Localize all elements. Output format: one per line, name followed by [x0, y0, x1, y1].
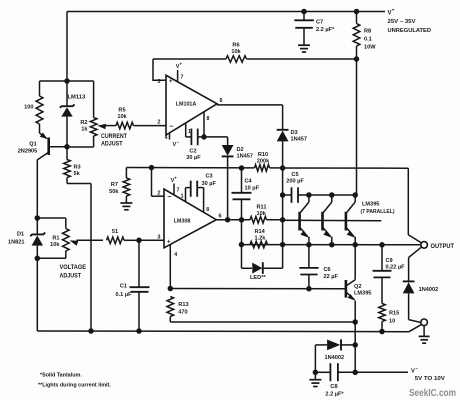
wire C4 top lead: [241, 168, 243, 193]
node R15 bottom: [379, 329, 385, 335]
svg-text:SeekIC.com: SeekIC.com: [409, 388, 456, 399]
pin4 V- stub LM101A: [169, 133, 171, 140]
wire pin2 drop: [151, 168, 153, 197]
wire R1 bottom: [65, 251, 67, 258]
ground below output post: [423, 326, 425, 336]
wire R2 bottom to base node: [93, 136, 95, 147]
svg-text:LM308: LM308: [174, 218, 191, 224]
svg-text:1N821: 1N821: [8, 239, 24, 245]
wire LED left leg: [241, 245, 243, 269]
op-amp U1 LM101A body: [166, 75, 217, 135]
node C8 right V-: [352, 370, 358, 376]
wire junction to output line: [283, 167, 409, 169]
svg-text:D1: D1: [17, 231, 24, 237]
wire base node to R3: [66, 147, 68, 160]
wire base drive rail: [170, 288, 346, 290]
wire D1 top lead: [36, 218, 38, 234]
wire emitter rail: [242, 244, 421, 246]
capacitor C7 2.2uF: [303, 12, 305, 21]
svg-text:R6: R6: [232, 43, 239, 49]
svg-text:200 µF: 200 µF: [286, 179, 304, 185]
svg-text:R5: R5: [118, 108, 125, 114]
wire C1 to bottom rail: [138, 292, 140, 331]
node collector 1: [306, 192, 312, 198]
transistor LM395 unit 2: [321, 212, 324, 231]
capacitor C2 30uF: [186, 136, 192, 138]
svg-text:2.2 µF*: 2.2 µF*: [325, 391, 344, 397]
svg-text:8: 8: [206, 207, 209, 213]
resistor R5 10k: [116, 122, 134, 129]
wire R8 to R6 node: [356, 46, 358, 59]
wire D2 to LM308 output node: [227, 156, 229, 219]
resistor R10 200k: [255, 165, 270, 172]
wire diode left to C8 node: [314, 345, 316, 372]
svg-text:7: 7: [177, 188, 180, 194]
svg-text:5V TO 10V: 5V TO 10V: [415, 376, 445, 382]
capacitor C4 10pF: [232, 192, 252, 194]
ground below C7: [298, 44, 310, 46]
svg-text:D3: D3: [291, 130, 298, 136]
transistor Q1 emitter arrow: [40, 133, 48, 140]
node Q1 base junction: [64, 144, 70, 150]
svg-text:VOLTAGE: VOLTAGE: [60, 264, 87, 271]
svg-text:LM395: LM395: [354, 291, 371, 297]
svg-text:C8: C8: [330, 384, 337, 390]
svg-text:C2: C2: [189, 149, 196, 155]
svg-text:Q1: Q1: [29, 141, 36, 147]
pin7 V+ stub LM101A: [177, 70, 179, 82]
svg-text:3: 3: [157, 234, 160, 240]
transistor Q1 base bar: [47, 138, 50, 156]
op-amp U2 LM308 body: [164, 189, 216, 248]
svg-text:6: 6: [219, 213, 222, 219]
svg-text:−: −: [167, 194, 171, 201]
zener diode LM113 body: [61, 107, 72, 116]
wire R1 branch top: [37, 217, 66, 219]
svg-text:0.1: 0.1: [364, 36, 372, 42]
wire C9 to R15: [381, 277, 383, 303]
zener diode D1 body: [32, 235, 43, 245]
svg-text:OUTPUT: OUTPUT: [431, 243, 455, 250]
transistor Q1 2N2905 emitter lead: [40, 133, 47, 138]
capacitor C1 0.1uF: [130, 286, 150, 288]
svg-text:50k: 50k: [109, 189, 119, 195]
node C4 top: [239, 165, 245, 171]
resistor R7 50k: [125, 168, 127, 179]
diode 1N4002 reverse supply: [315, 344, 327, 346]
resistor 51: [107, 237, 125, 244]
svg-text:5k: 5k: [74, 171, 81, 177]
svg-text:CURRENT: CURRENT: [101, 133, 127, 140]
wire LM101A pin3 feedback: [153, 59, 166, 80]
resistor R11 10k: [250, 217, 267, 224]
pin8 stub LM101A: [203, 112, 205, 137]
svg-text:1k: 1k: [81, 127, 88, 133]
resistor R3 5k: [64, 160, 71, 178]
capacitor C3 30uF: [186, 187, 191, 189]
resistor R14 1.2k: [250, 241, 268, 248]
transistor Q2 base bar: [345, 280, 348, 298]
wire node to LM308 pin3: [139, 239, 164, 241]
svg-text:7: 7: [181, 75, 184, 81]
resistor 100: [36, 96, 43, 124]
wire rail B: [170, 321, 355, 323]
capacitor C8 2.2uF: [315, 371, 330, 373]
node collector 2: [329, 192, 335, 198]
svg-text:R2: R2: [80, 120, 87, 126]
node emitter 2: [329, 242, 335, 248]
wire R11 to node: [267, 219, 283, 221]
svg-text:C9: C9: [386, 258, 393, 264]
svg-text:10 pF: 10 pF: [245, 185, 260, 191]
wire R13 bottom to rail B: [169, 317, 171, 323]
pin4 stub LM308: [169, 244, 171, 288]
svg-text:D2: D2: [237, 147, 244, 153]
potentiometer R1 wiper arrow: [70, 240, 79, 245]
ground below R7: [120, 202, 132, 204]
wire LM113 to base node: [66, 117, 68, 147]
node LM308 output: [225, 217, 231, 223]
diode D3 1N457: [277, 129, 289, 131]
wire node to LM113: [66, 81, 68, 105]
node R3 column bottom: [88, 328, 94, 334]
svg-text:*Solid Tantalum.: *Solid Tantalum.: [40, 373, 82, 379]
svg-text:**Lights during current limit.: **Lights during current limit.: [38, 382, 111, 388]
svg-text:4: 4: [174, 252, 177, 258]
svg-text:R14: R14: [255, 229, 266, 235]
svg-text:C7: C7: [316, 19, 323, 25]
wire bottom rail: [37, 330, 409, 333]
svg-text:R10: R10: [258, 152, 268, 158]
svg-text:10k: 10k: [50, 242, 60, 248]
wire output node to R11: [228, 219, 250, 221]
capacitor C5 200uF: [283, 194, 292, 196]
svg-text:R7: R7: [111, 182, 118, 188]
wire V- terminal: [355, 371, 408, 373]
terminal ground post: [421, 319, 428, 326]
wire node down to C1: [138, 240, 140, 287]
wire LM308 output: [216, 219, 227, 221]
wire top supply rail: [67, 11, 385, 13]
transistor Q1 collector lead: [38, 152, 49, 160]
wire R6 line left: [153, 58, 226, 60]
wire output circle to diode: [409, 247, 422, 257]
svg-text:2: 2: [157, 190, 160, 196]
svg-text:ADJUST: ADJUST: [60, 272, 82, 279]
node R14 left: [239, 242, 245, 248]
node C5 left: [280, 192, 286, 198]
wire LM101A output: [217, 104, 283, 106]
svg-text:LM395: LM395: [362, 201, 379, 207]
svg-text:C5: C5: [291, 172, 298, 178]
wire D3col R11 to R14: [282, 220, 284, 245]
transistor Q2 collector: [347, 280, 356, 286]
svg-text:1: 1: [181, 194, 184, 200]
svg-text:10: 10: [389, 319, 395, 325]
svg-text:10k: 10k: [117, 114, 127, 120]
node R11 right: [280, 217, 286, 223]
resistor R8 0.1 10W: [356, 12, 358, 24]
svg-text:R11: R11: [257, 204, 267, 210]
node R14 right: [280, 242, 286, 248]
svg-text:R1: R1: [52, 235, 59, 241]
node C9 top: [379, 242, 385, 248]
wire D1 bottom lead: [36, 246, 38, 259]
wire clamp diode to lower circle: [408, 293, 410, 319]
svg-text:25V – 35V: 25V – 35V: [388, 19, 416, 25]
svg-text:R13: R13: [178, 302, 188, 308]
transistor Q2 emitter: [347, 293, 355, 300]
node R8 top: [354, 9, 360, 15]
svg-text:1N4002: 1N4002: [325, 355, 345, 361]
svg-text:−: −: [169, 123, 173, 130]
wire C9 top lead: [381, 245, 383, 271]
svg-text:−: −: [177, 140, 180, 145]
svg-text:10k: 10k: [231, 49, 241, 55]
svg-text:30 µF: 30 µF: [202, 181, 217, 187]
node emitter 1: [306, 242, 312, 248]
wire C6 bottom lead: [308, 275, 310, 289]
svg-text:C3: C3: [206, 174, 213, 180]
node pin2 drop: [149, 165, 155, 171]
svg-text:UNREGULATED: UNREGULATED: [388, 28, 432, 34]
node R6 R8 junction: [354, 56, 360, 62]
svg-text:10k: 10k: [257, 211, 267, 217]
svg-text:R15: R15: [389, 310, 399, 316]
resistor R13 470: [167, 297, 174, 317]
node D1 bottom: [35, 256, 41, 262]
capacitor C6 22uF: [299, 267, 318, 269]
wire C4 bottom lead: [241, 199, 243, 220]
svg-text:22 µF: 22 µF: [324, 274, 339, 280]
wire R3 to right-down column: [66, 178, 68, 184]
wire collector rail: [309, 194, 355, 196]
wire mid rail: [126, 167, 254, 169]
wire Q1 base to node: [49, 146, 67, 148]
svg-text:470: 470: [178, 309, 187, 315]
wire to 100-ohm branch: [40, 80, 68, 82]
node pin4 R13 junction: [168, 286, 174, 292]
svg-text:+: +: [167, 238, 171, 245]
svg-text:100: 100: [24, 105, 33, 111]
transistor LM395 unit 3: [345, 212, 348, 231]
potentiometer R2 wiper arrow: [97, 124, 106, 129]
zener diode LM113 bar: [60, 104, 75, 107]
svg-text:2N2905: 2N2905: [18, 149, 38, 155]
node C1 bottom: [136, 328, 142, 334]
node 1N4002 right: [352, 342, 358, 348]
wire base rail LM395: [283, 219, 382, 222]
node C1 top: [136, 238, 142, 244]
wire C4col to R14: [241, 220, 243, 245]
wire D3 to junction: [282, 141, 284, 168]
wire Q2 emitter node down: [354, 322, 356, 372]
potentiometer R2 1k: [90, 118, 97, 137]
pin8 stub LM308: [203, 188, 205, 212]
svg-text:R3: R3: [74, 164, 81, 170]
wire R5 to LM101A pin2: [134, 125, 167, 127]
node C4 bottom on R11 line: [239, 217, 245, 223]
svg-text:LED**: LED**: [250, 275, 266, 281]
wire node to R2 top: [67, 80, 94, 82]
svg-text:1N457: 1N457: [291, 137, 307, 143]
pin1 stub LM101A: [185, 123, 187, 137]
wire R8 column down to collectors: [356, 59, 358, 195]
pin1 stub LM308: [185, 188, 187, 202]
wire left drop from top rail: [66, 12, 68, 82]
ground below C8 left: [314, 372, 316, 379]
svg-text:2.2 µF*: 2.2 µF*: [316, 27, 335, 33]
potentiometer R1 10k: [63, 229, 70, 252]
svg-text:LM101A: LM101A: [176, 101, 197, 107]
wire 100-ohm to Q1 emitter: [39, 124, 41, 133]
terminal OUTPUT: [421, 242, 428, 249]
node Q2 emitter junction: [352, 319, 358, 325]
node C6 bottom: [306, 286, 312, 292]
node collector 3: [352, 192, 358, 198]
svg-text:1.2k: 1.2k: [255, 236, 267, 242]
pin7 V+ stub LM308: [173, 184, 175, 195]
svg-text:0.1 µF: 0.1 µF: [116, 292, 133, 298]
svg-text:LM113: LM113: [68, 95, 86, 101]
svg-text:+: +: [169, 78, 173, 85]
diode D2 1N457: [222, 145, 234, 156]
svg-text:8: 8: [207, 116, 210, 122]
svg-text:1N457: 1N457: [237, 154, 253, 160]
diode 1N4002 output clamp: [403, 280, 415, 282]
svg-text:+: +: [174, 176, 177, 181]
svg-text:0.22 µF: 0.22 µF: [386, 264, 406, 270]
node junction top-left: [64, 78, 70, 84]
svg-text:1N4002: 1N4002: [419, 287, 439, 293]
wire D3 junction down to C5 node: [282, 168, 284, 220]
node D1 top: [35, 215, 41, 221]
svg-text:−: −: [415, 366, 418, 371]
wire C6 top lead: [308, 245, 310, 268]
LED diode: [252, 263, 262, 274]
svg-text:C1: C1: [120, 284, 127, 290]
node emitter 3: [352, 242, 358, 248]
wire pin8 node to D2: [204, 136, 228, 138]
wire LED right leg: [263, 267, 283, 269]
svg-text:C4: C4: [245, 178, 253, 184]
svg-text:200k: 200k: [257, 158, 270, 164]
wire left column to bottom rail: [36, 258, 38, 331]
svg-text:+: +: [180, 62, 183, 67]
svg-text:(7 PARALLEL): (7 PARALLEL): [361, 209, 395, 215]
wire 51 to node: [124, 239, 139, 241]
svg-text:6: 6: [220, 98, 223, 104]
svg-text:2: 2: [157, 120, 160, 126]
svg-text:10W: 10W: [364, 44, 376, 50]
transistor LM395 unit 1: [298, 212, 301, 231]
wire R15 bottom: [381, 322, 383, 332]
wire R6 line right: [247, 58, 357, 60]
resistor R6 10k: [226, 56, 247, 63]
svg-text:ADJUST: ADJUST: [101, 140, 123, 147]
svg-text:4: 4: [165, 135, 168, 141]
zener diode D1 1N821 bar: [30, 233, 45, 237]
svg-text:Q2: Q2: [354, 284, 361, 290]
svg-text:30 µF: 30 µF: [186, 155, 201, 161]
svg-text:51: 51: [112, 229, 118, 235]
node C7 top: [301, 9, 307, 15]
capacitor C9 0.22uF: [373, 270, 392, 272]
svg-text:R8: R8: [364, 28, 371, 34]
svg-text:C6: C6: [324, 267, 331, 273]
wire Q1 collector down left column: [36, 159, 38, 218]
node C8 left: [313, 370, 319, 376]
svg-text:+: +: [392, 7, 395, 12]
node D3 bottom junction: [280, 165, 286, 171]
resistor R15 10: [379, 304, 386, 322]
node pin8 junction: [201, 134, 207, 140]
